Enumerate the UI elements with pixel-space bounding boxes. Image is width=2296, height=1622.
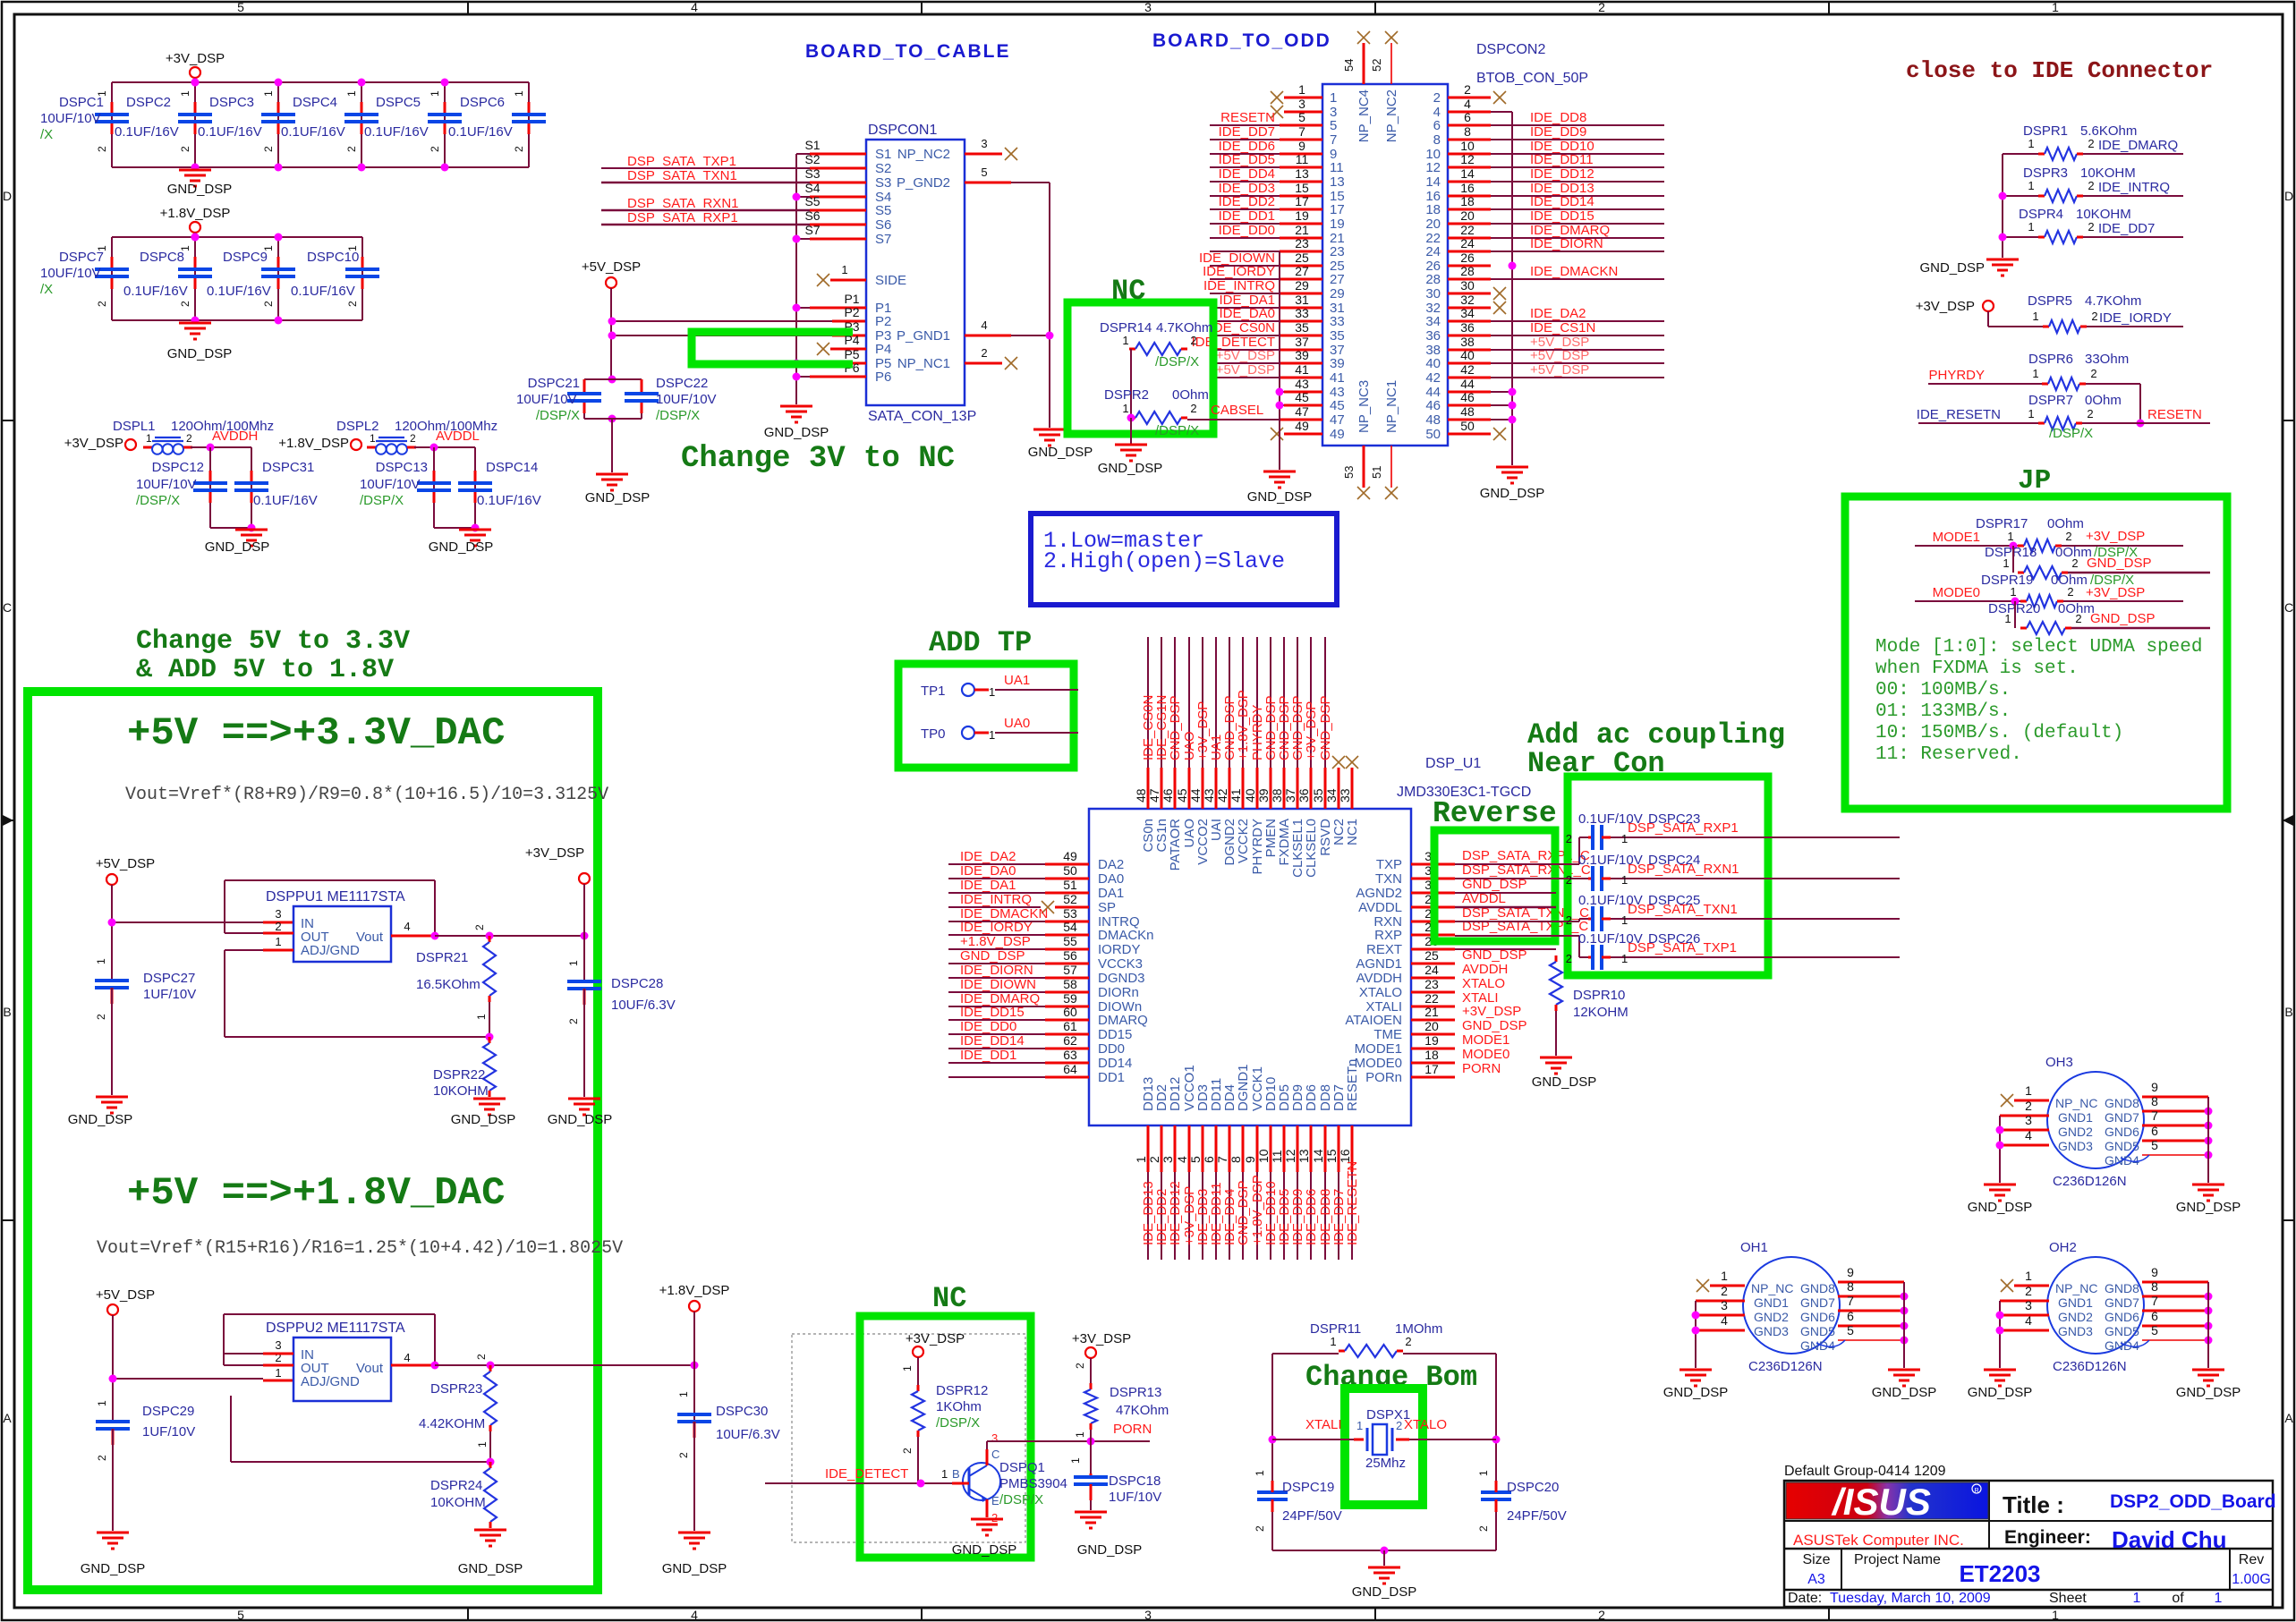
title block frame <box>1784 1481 2273 1607</box>
svg-text:PMBS3904: PMBS3904 <box>999 1476 1067 1491</box>
svg-text:GND_DSP: GND_DSP <box>1352 1584 1417 1600</box>
crystal X1 DSPX1 <box>1356 1407 1410 1471</box>
svg-text:+3V_DSP: +3V_DSP <box>1304 701 1319 760</box>
svg-text:2: 2 <box>1598 0 1605 14</box>
svg-text:45: 45 <box>1175 788 1189 803</box>
power +3V_DSP DSPL1 <box>64 436 136 451</box>
svg-text:1: 1 <box>96 1400 108 1406</box>
svg-text:IDE_DA0: IDE_DA0 <box>1219 306 1275 321</box>
svg-text:2: 2 <box>677 1452 690 1458</box>
svg-text:DD1: DD1 <box>1098 1070 1125 1085</box>
svg-text:DSP_SATA_TXN1: DSP_SATA_TXN1 <box>627 168 737 183</box>
svg-text:2: 2 <box>2075 612 2081 625</box>
svg-text:0.1UF/16V: 0.1UF/16V <box>123 284 188 299</box>
svg-text:1: 1 <box>275 1366 281 1380</box>
svg-text:1: 1 <box>1298 82 1305 97</box>
svg-text:2: 2 <box>346 301 359 307</box>
svg-text:GND5: GND5 <box>2105 1139 2139 1153</box>
svg-text:2: 2 <box>2071 556 2078 570</box>
svg-text:BOARD_TO_CABLE: BOARD_TO_CABLE <box>805 41 1010 62</box>
svg-text:DSPC3: DSPC3 <box>209 95 254 110</box>
ground GND_DSP DSPC18 <box>1075 1512 1142 1558</box>
svg-text:P1: P1 <box>844 292 859 306</box>
svg-text:01: 133MB/s.: 01: 133MB/s. <box>1875 701 2011 722</box>
node IDE_INTRQ <box>2083 180 2183 196</box>
ground GND_DSP DSPCON1 bus <box>764 406 829 440</box>
svg-text:C: C <box>3 600 12 615</box>
label JP <box>2018 465 2051 497</box>
svg-text:when FXDMA is set.: when FXDMA is set. <box>1875 658 2079 679</box>
svg-text:1: 1 <box>841 263 847 276</box>
svg-text:47: 47 <box>1147 788 1161 803</box>
power +1.8V_DSP <box>160 206 231 237</box>
power +1.8V_DSP DSPL2 <box>278 436 361 451</box>
power +3V_DSP DSPR12 <box>906 1331 965 1385</box>
testpoint TP0 <box>921 716 1078 742</box>
svg-text:1: 1 <box>346 245 359 251</box>
resistor DSPR21 <box>416 924 496 1041</box>
svg-text:30: 30 <box>1460 278 1475 293</box>
svg-text:GND7: GND7 <box>1800 1295 1835 1310</box>
junction dots +5V branch <box>608 318 617 423</box>
svg-text:P_GND2: P_GND2 <box>897 175 950 191</box>
power +3V_DSP <box>166 51 225 82</box>
svg-text:2: 2 <box>1396 1419 1402 1432</box>
svg-text:IDE_INTRQ: IDE_INTRQ <box>1203 278 1275 293</box>
svg-text:IDE_DD15: IDE_DD15 <box>1530 208 1594 224</box>
svg-text:ADJ/GND: ADJ/GND <box>301 1374 360 1389</box>
svg-text:DSPPU2 ME1117STA: DSPPU2 ME1117STA <box>266 1321 405 1336</box>
ground GND_DSP DSPL1 <box>205 530 270 555</box>
svg-text:Engineer:: Engineer: <box>2004 1527 2091 1548</box>
svg-text:GND_DSP: GND_DSP <box>1247 489 1313 505</box>
svg-text:1: 1 <box>901 1365 914 1371</box>
svg-text:/DSP/X: /DSP/X <box>1155 354 1199 369</box>
resistor DSPR13 <box>1074 1363 1169 1441</box>
svg-text:41: 41 <box>1295 362 1309 377</box>
svg-text:B: B <box>3 1005 11 1019</box>
svg-text:7: 7 <box>1215 1156 1229 1163</box>
wire XTALO <box>1396 1417 1496 1439</box>
svg-text:BOARD_TO_ODD: BOARD_TO_ODD <box>1152 30 1331 51</box>
svg-text:23: 23 <box>1295 236 1309 251</box>
svg-text:2: 2 <box>2067 585 2073 599</box>
svg-text:GND_DSP: GND_DSP <box>1318 695 1333 760</box>
title text <box>2003 1491 2276 1518</box>
svg-text:IDE_DD2: IDE_DD2 <box>1219 194 1275 209</box>
svg-text:31: 31 <box>1295 293 1309 307</box>
svg-text:P6: P6 <box>875 369 891 385</box>
svg-text:6: 6 <box>1433 118 1441 133</box>
svg-text:7: 7 <box>2151 1108 2158 1123</box>
power +5V_DSP PU1 <box>96 856 155 979</box>
svg-text:1: 1 <box>2032 310 2038 323</box>
svg-text:19: 19 <box>1424 1033 1439 1048</box>
svg-text:1: 1 <box>2003 556 2009 570</box>
svg-text:2: 2 <box>1477 1525 1490 1532</box>
resistor DSPR23 <box>419 1354 497 1466</box>
svg-text:2: 2 <box>1190 402 1196 415</box>
svg-text:26: 26 <box>1460 251 1475 265</box>
node IDE_DETECT <box>765 1466 952 1488</box>
svg-text:DSPCON1: DSPCON1 <box>868 123 937 138</box>
svg-text:/DSP/X: /DSP/X <box>2049 426 2093 441</box>
svg-text:17: 17 <box>1330 202 1345 217</box>
svg-text:1: 1 <box>1254 1470 1266 1476</box>
svg-text:E: E <box>991 1494 999 1507</box>
svg-text:SIDE: SIDE <box>875 273 906 288</box>
svg-text:XTALI: XTALI <box>1305 1417 1342 1432</box>
capacitor DSPC9 <box>207 237 295 320</box>
resistor DSPR7 <box>2028 393 2121 441</box>
svg-text:GND2: GND2 <box>1754 1310 1789 1324</box>
engineer row <box>1793 1526 2227 1553</box>
svg-text:IDE_DD1: IDE_DD1 <box>1219 208 1275 224</box>
svg-text:1: 1 <box>1122 402 1128 415</box>
node DSP_SATA_RXP1 <box>601 210 810 225</box>
annotation NC box <box>1067 302 1213 434</box>
svg-text:S6: S6 <box>875 217 891 233</box>
svg-text:GND7: GND7 <box>2105 1110 2139 1125</box>
op-amp U1 bottom inside labels <box>1141 1059 1360 1111</box>
svg-text:50: 50 <box>1425 427 1441 442</box>
svg-text:1: 1 <box>2007 530 2013 543</box>
connector OH1 <box>1663 1240 1937 1400</box>
svg-text:/X: /X <box>40 282 53 297</box>
svg-text:GND3: GND3 <box>1754 1324 1789 1338</box>
svg-text:DSPR21: DSPR21 <box>416 950 468 965</box>
svg-text:IDE_DA2: IDE_DA2 <box>960 849 1016 864</box>
svg-text:DSP_U1: DSP_U1 <box>1425 756 1481 771</box>
svg-text:Vout=Vref*(R8+R9)/R9=0.8*(10+1: Vout=Vref*(R8+R9)/R9=0.8*(10+16.5)/10=3.… <box>125 785 608 805</box>
label Change 5V to 3.3V <box>136 626 410 685</box>
ground GND_DSP DSPCON2 right <box>1480 467 1545 501</box>
svg-text:18: 18 <box>1425 202 1441 217</box>
svg-text:8: 8 <box>1433 132 1441 148</box>
svg-text:AVDDH: AVDDH <box>1356 971 1402 986</box>
svg-text:48: 48 <box>1425 412 1441 428</box>
svg-text:IDE_DD9: IDE_DD9 <box>1530 124 1586 140</box>
svg-text:6: 6 <box>1847 1309 1854 1323</box>
svg-text:1: 1 <box>2004 612 2011 625</box>
svg-text:IDE_DD11: IDE_DD11 <box>1530 152 1594 167</box>
svg-text:4.42KOHM: 4.42KOHM <box>419 1416 485 1431</box>
svg-text:DSPC4: DSPC4 <box>293 95 337 110</box>
svg-text:+1.8V_DSP: +1.8V_DSP <box>659 1283 730 1298</box>
svg-text:+3V_DSP: +3V_DSP <box>1462 1004 1521 1019</box>
node IDE_DD7 pullup <box>2083 221 2183 237</box>
svg-text:Vout: Vout <box>356 930 384 945</box>
connector OH2 <box>1968 1240 2241 1400</box>
svg-text:ADD TP: ADD TP <box>929 626 1032 659</box>
svg-text:52: 52 <box>1063 892 1077 906</box>
svg-text:DSPC27: DSPC27 <box>143 971 195 986</box>
node AVDDL <box>436 429 480 444</box>
svg-text:1: 1 <box>2010 585 2016 599</box>
svg-text:0.1UF/16V: 0.1UF/16V <box>198 124 262 140</box>
svg-text:4: 4 <box>1464 97 1471 111</box>
op-amp U1 regulator DSPPU1 <box>266 889 411 962</box>
svg-text:+5V_DSP: +5V_DSP <box>1530 348 1589 363</box>
svg-text:46: 46 <box>1460 390 1475 404</box>
svg-text:39: 39 <box>1295 348 1309 362</box>
svg-text:+3V_DSP: +3V_DSP <box>525 845 584 861</box>
capacitor DSPC1 <box>40 82 129 167</box>
svg-text:4: 4 <box>981 318 987 332</box>
svg-text:IDE_DA0: IDE_DA0 <box>960 863 1016 879</box>
svg-text:3: 3 <box>991 1431 998 1445</box>
svg-text:2: 2 <box>1190 334 1196 347</box>
svg-text:23: 23 <box>1330 244 1345 259</box>
label Change 3V to NC <box>681 442 955 476</box>
svg-text:+3V_DSP: +3V_DSP <box>1072 1331 1131 1346</box>
resistor DSPR4 <box>2019 207 2131 243</box>
svg-text:2: 2 <box>262 301 275 307</box>
label NP_NC2 con2 <box>1384 89 1399 142</box>
svg-text:DSP2_ODD_Board: DSP2_ODD_Board <box>2110 1491 2276 1512</box>
label Add ac coupling <box>1527 718 1785 780</box>
connector DSPCON2 right pins <box>1448 82 1664 440</box>
svg-text:0Ohm: 0Ohm <box>2085 393 2122 408</box>
ground GND_DSP cap bank2 <box>167 323 233 361</box>
svg-text:61: 61 <box>1063 1019 1077 1033</box>
svg-text:GND5: GND5 <box>2105 1324 2139 1338</box>
testpoint TP1 <box>921 673 1078 699</box>
annotation master/slave box <box>1031 514 1337 605</box>
ground GND_DSP DSPQ1 <box>952 1519 1017 1558</box>
svg-text:PORN: PORN <box>1113 1422 1152 1437</box>
svg-text:Reverse: Reverse <box>1433 797 1557 830</box>
svg-text:NP_NC1: NP_NC1 <box>897 356 950 371</box>
svg-text:AVDDH: AVDDH <box>1462 962 1508 977</box>
annotation Reverse box <box>1434 830 1555 941</box>
svg-text:DSPR4: DSPR4 <box>2019 207 2063 222</box>
wire collector to PORN <box>987 1438 1150 1450</box>
svg-text:27: 27 <box>1330 272 1345 287</box>
svg-text:+5V_DSP: +5V_DSP <box>96 856 155 871</box>
svg-text:S3: S3 <box>875 175 891 191</box>
svg-text:DSPR18: DSPR18 <box>1985 545 2037 560</box>
svg-text:+5V ==>+3.3V_DAC: +5V ==>+3.3V_DAC <box>127 711 505 756</box>
svg-text:IDE_IORDY: IDE_IORDY <box>960 920 1033 935</box>
svg-text:/DSP/X: /DSP/X <box>360 493 404 508</box>
svg-text:7: 7 <box>1298 124 1305 139</box>
svg-text:25: 25 <box>1295 251 1309 265</box>
svg-text:S7: S7 <box>875 232 891 247</box>
svg-text:Default Group-0414 1209: Default Group-0414 1209 <box>1784 1464 1946 1479</box>
svg-text:GND_DSP: GND_DSP <box>167 346 233 361</box>
label BOARD_TO_CABLE <box>805 41 1010 62</box>
label Default Group <box>1784 1464 1946 1479</box>
svg-text:37: 37 <box>1295 335 1309 349</box>
svg-text:1: 1 <box>1330 1335 1336 1348</box>
svg-text:Title :: Title : <box>2003 1491 2064 1518</box>
svg-text:38: 38 <box>1460 335 1475 349</box>
svg-text:A3: A3 <box>1807 1572 1825 1587</box>
svg-text:34: 34 <box>1324 788 1339 803</box>
svg-text:6: 6 <box>1464 110 1471 124</box>
svg-text:2: 2 <box>429 146 441 152</box>
svg-text:NP_NC: NP_NC <box>1751 1281 1793 1295</box>
svg-text:2: 2 <box>179 301 191 307</box>
svg-text:39: 39 <box>1256 788 1271 803</box>
svg-text:2: 2 <box>1433 90 1441 106</box>
svg-text:10UF/10V: 10UF/10V <box>136 477 197 492</box>
svg-text:DSPC13: DSPC13 <box>376 460 428 475</box>
svg-text:NP_NC2: NP_NC2 <box>897 147 950 162</box>
pin NP_NC1 <box>897 346 1017 371</box>
svg-text:9: 9 <box>1298 139 1305 153</box>
svg-text:37: 37 <box>1283 788 1297 803</box>
svg-text:2: 2 <box>1405 1335 1411 1348</box>
node DSP_SATA_RXN1 <box>601 196 810 211</box>
svg-text:Date:: Date: <box>1788 1591 1822 1606</box>
svg-text:GND_DSP: GND_DSP <box>458 1561 523 1576</box>
svg-text:24: 24 <box>1460 236 1475 251</box>
wire DSPCON2 left gnd bus <box>1276 251 1284 470</box>
svg-text:IDE_RESETN: IDE_RESETN <box>1345 1161 1360 1245</box>
svg-text:5: 5 <box>1330 118 1337 133</box>
svg-text:45: 45 <box>1295 390 1309 404</box>
svg-text:+1.8V_DSP: +1.8V_DSP <box>160 206 231 221</box>
svg-text:DSPR13: DSPR13 <box>1110 1385 1161 1400</box>
annotation dotted box <box>792 1334 1025 1542</box>
capacitor DSPC12 <box>136 447 227 528</box>
capacitor DSPC31 <box>234 447 318 528</box>
svg-text:47KOhm: 47KOhm <box>1116 1403 1169 1418</box>
svg-text:IDE_DD0: IDE_DD0 <box>1219 223 1275 238</box>
svg-text:GND_DSP: GND_DSP <box>1663 1385 1729 1400</box>
date row <box>1788 1591 2223 1606</box>
resistor DSPR22 <box>433 1037 496 1099</box>
svg-text:NP_NC2: NP_NC2 <box>1384 89 1399 142</box>
svg-text:DSPR24: DSPR24 <box>430 1478 482 1493</box>
svg-text:ET2203: ET2203 <box>1959 1560 2040 1587</box>
svg-text:& ADD 5V to 1.8V: & ADD 5V to 1.8V <box>136 655 394 685</box>
svg-text:9: 9 <box>1847 1265 1854 1279</box>
svg-text:21: 21 <box>1295 223 1309 237</box>
capacitor DSPC4 <box>281 82 378 167</box>
svg-text:2: 2 <box>2088 220 2094 234</box>
node labels U1 bottom nets <box>1141 1161 1360 1245</box>
svg-text:+3V_DSP: +3V_DSP <box>2086 529 2145 544</box>
svg-text:S2: S2 <box>875 161 891 176</box>
svg-text:50: 50 <box>1460 419 1475 433</box>
svg-text:VCCK2: VCCK2 <box>1236 819 1251 863</box>
svg-text:OH3: OH3 <box>2045 1055 2073 1070</box>
svg-text:GND_DSP: GND_DSP <box>1872 1385 1937 1400</box>
wire +5V to PU2 <box>109 1375 294 1383</box>
svg-text:2: 2 <box>1598 1608 1605 1622</box>
svg-text:49: 49 <box>1295 419 1309 433</box>
svg-text:19: 19 <box>1330 217 1345 232</box>
svg-text:35: 35 <box>1311 788 1325 803</box>
svg-text:P2: P2 <box>844 305 859 319</box>
annotation crystal box <box>1345 1388 1423 1505</box>
svg-text:IDE_DA1: IDE_DA1 <box>960 878 1016 893</box>
svg-text:1.00G: 1.00G <box>2232 1572 2271 1587</box>
svg-text:DSPC8: DSPC8 <box>140 250 184 265</box>
svg-text:2: 2 <box>96 1455 108 1461</box>
svg-text:0.1UF/16V: 0.1UF/16V <box>448 124 513 140</box>
op-amp U1 right pins <box>1345 848 1590 1085</box>
wire DSPL2 gnd rail <box>434 524 480 532</box>
svg-text:DSPC5: DSPC5 <box>376 95 421 110</box>
svg-text:Project Name: Project Name <box>1854 1552 1941 1567</box>
capacitor DSPC7 <box>40 237 129 320</box>
svg-text:16: 16 <box>1338 1149 1352 1163</box>
svg-text:DSP_SATA_RXP1: DSP_SATA_RXP1 <box>627 210 738 225</box>
svg-text:+5V_DSP: +5V_DSP <box>1530 362 1589 378</box>
svg-text:39: 39 <box>1330 356 1345 371</box>
svg-text:IDE_DMACKN: IDE_DMACKN <box>1530 264 1618 279</box>
node RESETN right <box>2082 407 2210 428</box>
svg-text:GND_DSP: GND_DSP <box>2176 1200 2241 1215</box>
svg-text:Vout: Vout <box>356 1361 384 1376</box>
svg-text:C236D126N: C236D126N <box>1748 1359 1823 1374</box>
svg-text:6: 6 <box>2151 1309 2158 1323</box>
svg-text:1MOhm: 1MOhm <box>1395 1321 1442 1337</box>
svg-text:2: 2 <box>275 920 281 933</box>
node DSP_SATA_TXN1 <box>601 168 810 183</box>
svg-text:GND_DSP: GND_DSP <box>1077 1542 1143 1558</box>
op-amp U1 left pins <box>948 849 1154 1085</box>
wire Vout node 1.8 <box>391 1362 699 1370</box>
svg-text:DSPC6: DSPC6 <box>460 95 505 110</box>
capacitor DSPC26 <box>1455 931 1900 970</box>
svg-text:+5V ==>+1.8V_DAC: +5V ==>+1.8V_DAC <box>127 1171 505 1216</box>
svg-text:/DSP/X: /DSP/X <box>656 408 700 423</box>
resistor DSPR18 <box>1985 545 2138 579</box>
svg-text:2: 2 <box>901 1448 914 1454</box>
svg-text:42: 42 <box>1215 788 1229 803</box>
svg-text:MODE1: MODE1 <box>1933 530 1980 545</box>
svg-text:2: 2 <box>96 146 108 152</box>
svg-text:1: 1 <box>179 90 191 97</box>
svg-text:40: 40 <box>1460 348 1475 362</box>
svg-text:Tuesday, March 10, 2009: Tuesday, March 10, 2009 <box>1830 1591 1991 1606</box>
svg-text:1: 1 <box>345 90 358 97</box>
svg-text:2: 2 <box>262 146 275 152</box>
svg-text:/DSP/X: /DSP/X <box>999 1492 1043 1507</box>
svg-text:DSPC30: DSPC30 <box>716 1404 768 1419</box>
capacitor DSPC8 <box>123 237 212 320</box>
svg-text:XTALO: XTALO <box>1359 985 1402 1000</box>
svg-text:GND8: GND8 <box>1800 1281 1835 1295</box>
svg-text:DSP_SATA_RXN1: DSP_SATA_RXN1 <box>1628 862 1739 877</box>
svg-text:GND8: GND8 <box>2105 1281 2139 1295</box>
svg-text:10UF/10V: 10UF/10V <box>656 392 717 407</box>
svg-text:GND4: GND4 <box>1800 1338 1835 1353</box>
svg-text:55: 55 <box>1063 934 1077 948</box>
ground GND_DSP crystal <box>1352 1567 1417 1600</box>
svg-text:9: 9 <box>2151 1265 2158 1279</box>
svg-text:2: 2 <box>1566 832 1572 845</box>
svg-text:GND_DSP: GND_DSP <box>662 1561 727 1576</box>
svg-text:MODE0: MODE0 <box>1355 1056 1402 1071</box>
wire AVDDL stub <box>1455 893 1556 907</box>
svg-text:UA1: UA1 <box>1004 673 1030 688</box>
svg-text:ADJ/GND: ADJ/GND <box>301 943 360 958</box>
svg-text:2: 2 <box>2025 1284 2032 1298</box>
svg-text:36: 36 <box>1297 788 1311 803</box>
svg-text:12: 12 <box>1283 1149 1297 1163</box>
svg-text:DSPR23: DSPR23 <box>430 1381 482 1397</box>
node IDE_DMARQ <box>2083 138 2183 154</box>
node IDE_RESETN <box>1917 407 2038 423</box>
svg-text:NC: NC <box>932 1282 966 1315</box>
svg-text:5: 5 <box>2151 1138 2158 1152</box>
